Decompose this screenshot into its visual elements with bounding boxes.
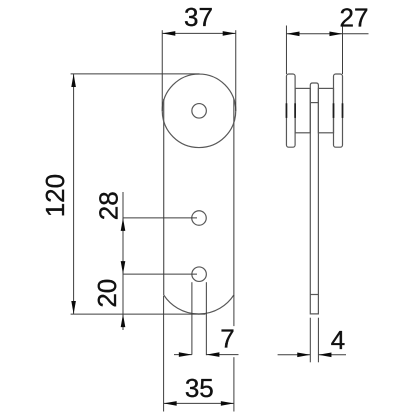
side view: left hub <box>295 88 310 132</box>
svg-text:27: 27 <box>340 3 369 33</box>
dim 27: dimension line with tail under text <box>286 33 368 35</box>
dim 35 arrows <box>164 401 177 406</box>
dim 28/20: dimension line with overshoots <box>122 192 124 330</box>
dim 27 arrows <box>286 32 299 37</box>
dim 120: extension line top <box>71 73 200 75</box>
svg-text:28: 28 <box>94 191 124 220</box>
svg-text:37: 37 <box>184 2 213 32</box>
side view: axle line across plate <box>310 102 318 104</box>
dim 37 arrows <box>162 31 175 36</box>
dim 28 arrows <box>121 218 126 231</box>
dim 4: extension lines <box>309 318 311 363</box>
dim 7: dimension line right tail <box>206 354 238 356</box>
dim 4 arrows (outside) <box>297 353 310 358</box>
svg-text:120: 120 <box>40 174 70 217</box>
side view: plate edge-on with rounded top <box>310 83 318 314</box>
side view: plate bend line near bottom <box>310 294 318 296</box>
dim 35: dimension line <box>164 402 234 404</box>
bottom hole <box>192 267 207 282</box>
side view: bore hidden edges (darker) <box>286 103 342 118</box>
dim 28: extension line at middle hole <box>123 217 197 219</box>
side view: right hub <box>318 88 333 132</box>
svg-text:4: 4 <box>331 325 345 355</box>
plate outline front view <box>164 99 234 314</box>
dim 120: extension line bottom (shared with 20) <box>71 313 206 315</box>
axle hole <box>192 104 207 119</box>
dim 20 bottom arrow (outside, below plate bottom) <box>121 314 126 327</box>
dim 7: dimension line left tail <box>174 354 192 356</box>
dim 4: dimension line left tail <box>278 354 310 356</box>
wheel circle front view <box>162 74 236 148</box>
side view: left flange <box>286 74 295 147</box>
dim 4: dimension line right tail <box>319 354 346 356</box>
svg-text:35: 35 <box>185 373 214 403</box>
svg-text:20: 20 <box>92 279 122 308</box>
dim 7: extension lines from bottom hole <box>191 282 193 355</box>
middle hole <box>192 211 207 226</box>
dim 120 arrows <box>71 74 76 87</box>
dim 35: extension line left <box>163 296 165 412</box>
svg-text:7: 7 <box>220 323 234 353</box>
dim 28/20: extension line at bottom hole <box>123 273 197 275</box>
dim 27: extension lines <box>285 26 287 75</box>
dim 37: dimension line <box>162 32 236 34</box>
side view: right flange <box>334 74 343 147</box>
dim 35: extension line right (broken at the 7 text) <box>233 295 235 326</box>
dim 37: extension lines (tangent to wheel) <box>161 30 163 111</box>
dim 7 arrows (outside) <box>179 352 192 357</box>
dim 120: dimension line <box>73 74 75 314</box>
